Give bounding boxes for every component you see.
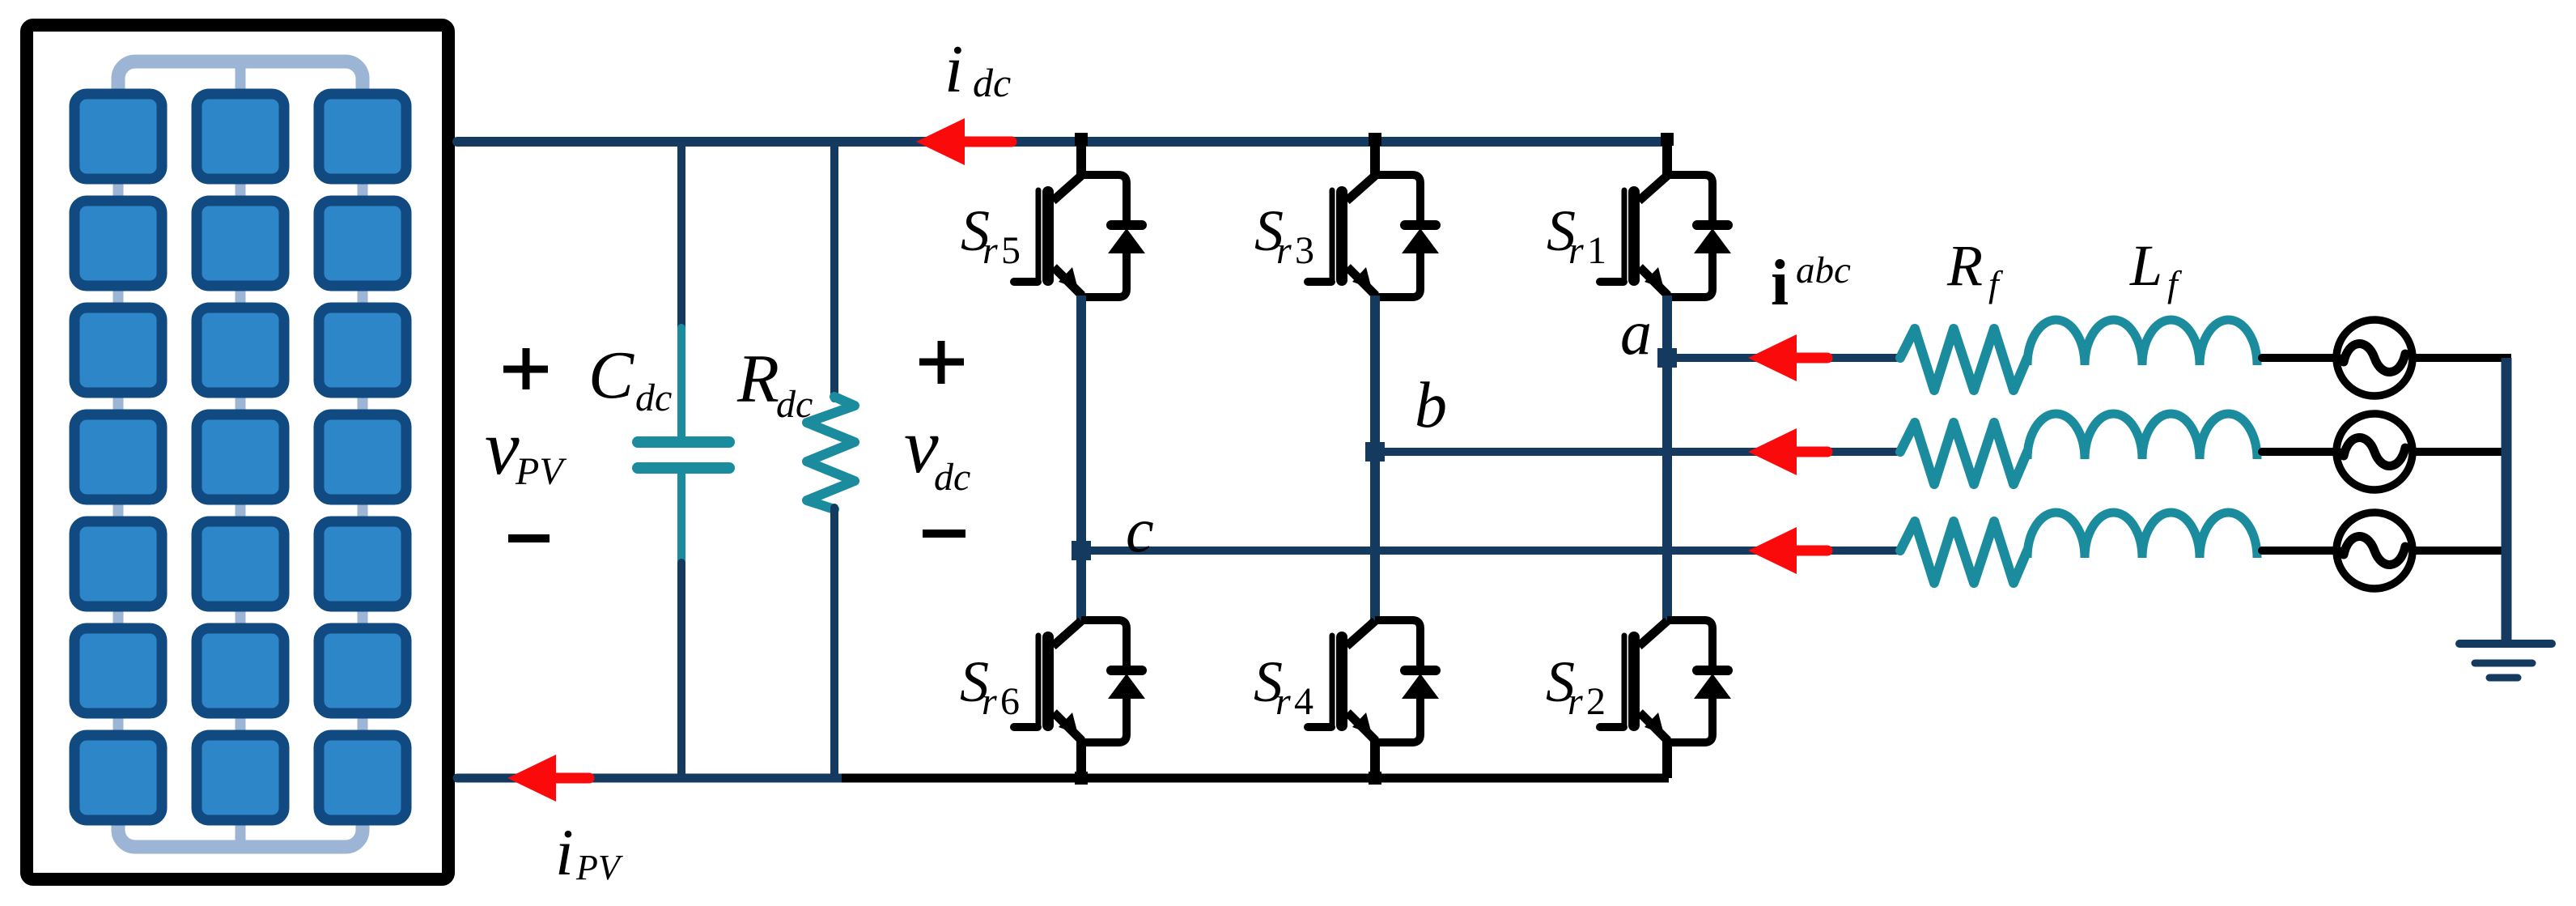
inductor Lf phase a xyxy=(2027,320,2257,365)
wire neutral bus vertical xyxy=(2502,358,2512,642)
svg-text:PV: PV xyxy=(575,848,624,887)
capacitor Cdc xyxy=(677,147,685,334)
AC source phase c xyxy=(2336,513,2413,589)
wire phase a rail xyxy=(1667,354,1900,362)
svg-text:3: 3 xyxy=(1295,229,1314,272)
svg-text:L: L xyxy=(2129,233,2162,298)
svg-text:4: 4 xyxy=(1294,680,1313,723)
wire emitter stub Sr4 xyxy=(1370,741,1380,778)
resistor Rf phase a xyxy=(1900,329,2027,390)
wire phase b rail xyxy=(1375,448,1900,456)
wire source c to neutral bus xyxy=(2411,547,2511,555)
wire leg b midsection xyxy=(1370,296,1380,622)
svg-text:6: 6 xyxy=(1000,680,1020,723)
junction dot bottom rail leg 1 xyxy=(1075,772,1088,785)
resistor Rdc xyxy=(830,147,838,398)
node a junction dot xyxy=(1657,348,1677,368)
PV panel cells (3x7 grid) xyxy=(74,94,162,179)
svg-text:abc: abc xyxy=(1796,249,1851,291)
plus sign vdc xyxy=(919,359,964,366)
resistor Rf phase b xyxy=(1900,423,2027,484)
wire top DC bus (positive rail) xyxy=(457,137,1667,147)
svg-text:dc: dc xyxy=(776,383,813,426)
svg-text:dc: dc xyxy=(934,456,970,499)
svg-text:R: R xyxy=(1946,233,1983,298)
junction dot top bus leg 3 xyxy=(1661,133,1674,146)
current arrow phase a xyxy=(1748,334,1797,381)
svg-text:r: r xyxy=(1276,229,1292,272)
wire phase a to source xyxy=(2262,354,2339,362)
svg-text:i: i xyxy=(944,32,963,107)
svg-text:r: r xyxy=(1568,680,1583,723)
wire phase b to source xyxy=(2262,448,2339,456)
svg-text:PV: PV xyxy=(515,450,567,493)
svg-text:b: b xyxy=(1415,370,1447,441)
node c junction dot xyxy=(1072,541,1091,560)
junction dot top bus leg 2 xyxy=(1369,133,1381,146)
wire collector stub Sr5 xyxy=(1076,143,1086,178)
svg-text:a: a xyxy=(1620,297,1652,368)
svg-text:r: r xyxy=(982,680,997,723)
transistor Sr6 (IGBT with antiparallel diode) xyxy=(1014,620,1145,742)
wire bottom DC rail black (inverter side) xyxy=(842,774,1669,783)
wire source a to neutral bus xyxy=(2411,354,2511,362)
current arrow i_dc xyxy=(916,118,965,165)
PV panel cell interconnect wiring xyxy=(118,62,363,92)
wire leg a midsection xyxy=(1662,296,1672,622)
wire source b to neutral bus xyxy=(2411,448,2511,456)
wire leg c midsection xyxy=(1076,296,1086,622)
AC source phase a xyxy=(2336,320,2413,396)
wire collector stub Sr3 xyxy=(1370,143,1380,178)
svg-text:f: f xyxy=(2167,263,2183,304)
transistor Sr2 (IGBT with antiparallel diode) xyxy=(1600,620,1731,742)
node b junction dot xyxy=(1365,442,1385,462)
transistor Sr1 (IGBT with antiparallel diode) xyxy=(1600,175,1731,297)
current arrow phase b xyxy=(1748,428,1797,475)
wire bottom DC rail navy (from PV) xyxy=(457,774,846,783)
svg-text:dc: dc xyxy=(973,60,1011,105)
svg-text:i: i xyxy=(555,815,574,889)
minus sign vPV xyxy=(508,534,550,542)
current arrow phase c xyxy=(1748,527,1797,574)
transistor Sr4 (IGBT with antiparallel diode) xyxy=(1308,620,1439,742)
wire phase c to source xyxy=(2262,547,2339,555)
resistor Rf phase c xyxy=(1900,521,2027,583)
svg-text:dc: dc xyxy=(635,376,672,419)
svg-text:r: r xyxy=(982,229,998,272)
ground xyxy=(2459,640,2552,648)
inductor Lf phase b xyxy=(2027,414,2257,459)
wire phase c rail xyxy=(1081,547,1900,555)
wire emitter stub Sr2 xyxy=(1662,741,1672,778)
svg-text:r: r xyxy=(1568,229,1584,272)
svg-text:2: 2 xyxy=(1586,680,1606,723)
AC source phase b xyxy=(2336,414,2413,490)
inductor Lf phase c xyxy=(2027,513,2257,558)
transistor Sr5 (IGBT with antiparallel diode) xyxy=(1014,175,1145,297)
plus sign vPV xyxy=(503,366,548,373)
svg-text:v: v xyxy=(485,404,520,491)
svg-text:f: f xyxy=(1988,263,2004,304)
transistor Sr3 (IGBT with antiparallel diode) xyxy=(1308,175,1439,297)
junction dot top bus leg 1 xyxy=(1075,133,1088,146)
PV panel frame xyxy=(27,25,448,879)
svg-text:1: 1 xyxy=(1587,229,1606,272)
svg-text:5: 5 xyxy=(1001,229,1021,272)
svg-text:C: C xyxy=(588,338,634,413)
svg-text:i: i xyxy=(1771,248,1789,319)
junction dot bottom rail leg 2 xyxy=(1369,772,1381,785)
current arrow i_PV xyxy=(507,755,556,802)
svg-text:c: c xyxy=(1126,495,1154,565)
svg-text:R: R xyxy=(736,341,779,417)
svg-text:r: r xyxy=(1275,680,1291,723)
wire collector stub Sr1 xyxy=(1662,143,1672,178)
minus sign vdc xyxy=(923,530,965,538)
wire emitter stub Sr6 xyxy=(1076,741,1086,778)
